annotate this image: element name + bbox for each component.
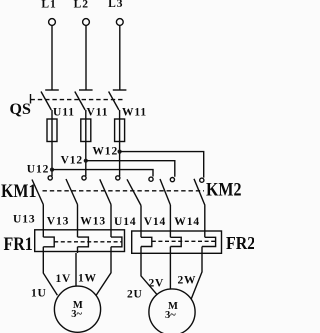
svg-text:V12: V12 [61, 155, 84, 167]
switch QS pole2 blade [75, 92, 85, 111]
wire node W12 to KM2 pole3 [120, 152, 204, 178]
contactor KM2 pole1 fixed terminal [149, 177, 153, 181]
thermal relay FR2 box [132, 231, 222, 253]
wire node U12 to KM2 pole1 [52, 170, 153, 177]
svg-text:1V: 1V [56, 273, 72, 285]
svg-text:U12: U12 [27, 163, 50, 175]
svg-text:U11: U11 [53, 107, 75, 119]
thermal relay FR1 heater element 2 [78, 237, 89, 247]
svg-text:L1: L1 [41, 0, 56, 11]
svg-text:L3: L3 [108, 0, 123, 10]
svg-text:W11: W11 [122, 107, 147, 119]
contactor KM2 pole3 blade [194, 179, 205, 206]
svg-text:KM2: KM2 [206, 179, 242, 199]
contactor KM1 pole2 fixed terminal [82, 176, 86, 180]
switch QS linkage tick [30, 94, 32, 104]
svg-text:U13: U13 [13, 214, 36, 226]
svg-text:1U: 1U [31, 288, 47, 300]
wire QS pole1 to fuse and node U12 [51, 110, 53, 176]
wire KM2 pole3 to FR2 [204, 206, 206, 238]
wire KM1 pole3 to FR1 [110, 205, 112, 238]
motor M1 circle [54, 286, 100, 332]
terminal circle L2 [83, 19, 90, 26]
wire FR1 phase V to motor M1 [76, 247, 78, 286]
wire KM1 pole2 to FR1 [77, 205, 79, 238]
contactor KM1 pole1 fixed terminal [48, 176, 52, 180]
thermal relay FR2 heater element 1 [141, 237, 152, 246]
wire L2 to QS [85, 25, 87, 90]
svg-text:1W: 1W [78, 273, 97, 285]
thermal relay FR1 box [35, 230, 125, 252]
wire FR1 phase W to motor M1 [96, 247, 111, 296]
contactor KM1 pole1 blade [32, 180, 43, 205]
svg-text:V14: V14 [144, 216, 167, 228]
contactor KM2 pole2 blade [160, 179, 170, 205]
wire FR2 phase U to motor M2 [141, 247, 157, 295]
switch QS pole3 fixed contact T-bar [113, 89, 127, 91]
svg-text:2V: 2V [149, 278, 165, 290]
wire FR1 phase U to motor M1 [43, 247, 57, 295]
thermal relay FR2 linkage dashed line [152, 240, 216, 242]
svg-text:W12: W12 [92, 146, 118, 158]
node V12 junction dot [84, 159, 88, 163]
motor M2 circle [149, 289, 195, 333]
svg-text:V13: V13 [47, 215, 70, 227]
thermal relay FR1 heater element 1 [43, 237, 54, 247]
thermal relay FR2 heater element 2 [170, 237, 181, 246]
contactor KM2 pole1 blade [127, 179, 141, 205]
svg-text:L2: L2 [74, 0, 89, 11]
svg-text:3~: 3~ [71, 309, 82, 320]
node U12 junction dot [50, 168, 54, 172]
terminal circle L3 [116, 19, 123, 26]
svg-text:3~: 3~ [165, 310, 176, 321]
wire QS pole3 to fuse and node W12 [119, 110, 121, 176]
svg-text:2U: 2U [127, 289, 143, 301]
switch QS pole3 blade [109, 92, 119, 111]
svg-text:W13: W13 [80, 215, 106, 227]
terminal circle L1 [49, 19, 56, 26]
fuse V11 [81, 119, 91, 142]
svg-text:FR1: FR1 [4, 234, 33, 254]
contactor KM2 pole3 fixed terminal [200, 178, 204, 182]
wire KM2 pole1 to FR2 [140, 206, 142, 238]
fuse W11 [115, 119, 125, 142]
contactor linkage dashed line [43, 190, 205, 192]
wire KM1 pole1 to FR1 [42, 205, 44, 238]
wire KM2 pole2 to FR2 [169, 205, 171, 237]
thermal relay FR1 linkage dashed line [54, 241, 122, 243]
switch QS pole1 fixed contact T-bar [45, 89, 59, 91]
svg-text:W14: W14 [174, 216, 200, 228]
wire L1 to QS [51, 25, 53, 90]
switch QS pole2 fixed contact T-bar [79, 89, 93, 91]
contactor KM1 pole3 blade [100, 179, 111, 204]
contactor KM1 pole2 blade [66, 179, 78, 205]
fuse U11 [47, 119, 57, 142]
svg-text:KM1: KM1 [1, 181, 37, 201]
wire L3 to QS [119, 25, 121, 90]
wire node V12 to KM2 pole2 [86, 161, 175, 177]
wire QS pole2 to fuse and node V12 [85, 110, 87, 176]
contactor KM2 pole2 fixed terminal [170, 178, 174, 182]
node W12 junction dot [118, 150, 122, 154]
wire FR2 phase V to motor M2 [169, 247, 171, 290]
wire FR2 phase W to motor M2 [191, 247, 202, 300]
thermal relay FR2 heater element 3 [202, 237, 216, 246]
thermal relay FR1 heater element 3 [111, 237, 122, 247]
svg-text:2W: 2W [178, 275, 197, 287]
svg-text:V11: V11 [87, 107, 109, 119]
switch QS linkage dashed line [31, 99, 124, 101]
switch QS pole1 blade [41, 92, 51, 111]
contactor KM1 pole3 fixed terminal [116, 176, 120, 180]
svg-text:FR2: FR2 [226, 233, 254, 253]
svg-text:U14: U14 [114, 216, 137, 228]
svg-text:QS: QS [10, 101, 31, 118]
